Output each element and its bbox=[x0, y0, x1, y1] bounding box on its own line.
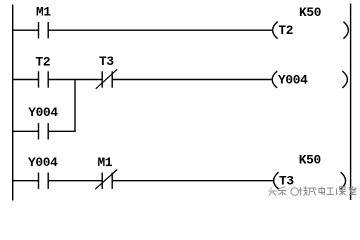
right power rail bbox=[350, 4, 352, 201]
watermark char @ bbox=[291, 188, 299, 196]
branch riser junction bbox=[74, 80, 76, 132]
wire rung2 left segment bbox=[13, 79, 39, 81]
wire rung3 left segment bbox=[13, 180, 39, 182]
watermark char 成 bbox=[309, 188, 317, 196]
coil T2 right arc bbox=[343, 22, 348, 39]
coil T2 left arc bbox=[273, 22, 278, 39]
contact Y004 rung3 (normally open) bbox=[39, 173, 49, 189]
watermark 头条@技成电工课堂 bbox=[269, 186, 358, 195]
wire rung3 right segment to coil T3 bbox=[112, 180, 274, 182]
watermark char 电 bbox=[319, 187, 326, 195]
contact M1 rung1 (normally open) bbox=[39, 22, 49, 38]
branch wire right segment bbox=[48, 130, 75, 132]
coil T3 right arc bbox=[341, 172, 346, 189]
svg-text:Y004: Y004 bbox=[278, 73, 308, 88]
watermark char 课 bbox=[337, 187, 346, 195]
wire rung2 right segment to coil Y004 bbox=[112, 79, 271, 81]
contact T3 rung2 (normally closed) bbox=[96, 69, 118, 89]
svg-text:T2: T2 bbox=[278, 23, 293, 38]
watermark char 工 bbox=[327, 188, 335, 195]
svg-text:M1: M1 bbox=[98, 155, 113, 170]
svg-text:M1: M1 bbox=[36, 5, 51, 20]
svg-text:T3: T3 bbox=[99, 54, 114, 69]
coil T3 left arc bbox=[274, 172, 279, 189]
left power rail bbox=[12, 5, 14, 201]
watermark char 堂 bbox=[349, 186, 358, 194]
svg-text:Y004: Y004 bbox=[28, 105, 58, 120]
coil Y004 left arc bbox=[272, 71, 277, 88]
watermark char 头 bbox=[269, 188, 277, 196]
wire rung2 middle segment bbox=[48, 79, 102, 81]
contact Y004 branch (normally open) bbox=[39, 123, 49, 139]
svg-text:K50: K50 bbox=[299, 153, 321, 168]
wire rung3 middle segment bbox=[48, 180, 102, 182]
watermark char 技 bbox=[299, 187, 308, 196]
coil Y004 right arc bbox=[342, 71, 347, 88]
svg-text:T2: T2 bbox=[36, 55, 51, 70]
watermark char 条 bbox=[278, 187, 287, 196]
branch wire left segment bbox=[13, 130, 39, 132]
contact M1 rung3 (normally closed) bbox=[95, 170, 117, 190]
svg-text:K50: K50 bbox=[299, 5, 321, 20]
wire rung1 left segment bbox=[13, 29, 39, 31]
svg-text:Y004: Y004 bbox=[28, 155, 58, 170]
wire rung1 right segment to coil T2 bbox=[48, 29, 273, 31]
svg-text:T3: T3 bbox=[279, 174, 294, 189]
contact T2 rung2 (normally open) bbox=[39, 71, 49, 87]
